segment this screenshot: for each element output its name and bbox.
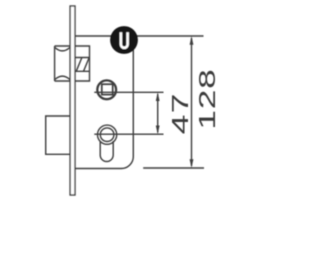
svg-text:128: 128	[195, 69, 221, 130]
svg-text:47: 47	[167, 92, 193, 134]
